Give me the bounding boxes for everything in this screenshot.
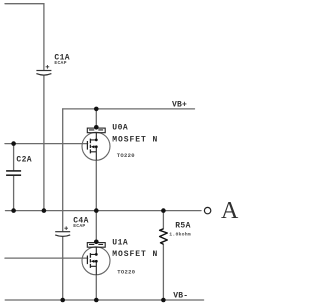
svg-text:VB+: VB+	[172, 100, 187, 109]
svg-text:TO220: TO220	[117, 269, 135, 276]
svg-text:TO220: TO220	[117, 152, 135, 159]
svg-text:R5A: R5A	[175, 221, 191, 230]
svg-text:MOSFET N: MOSFET N	[112, 250, 158, 259]
svg-text:ECAP: ECAP	[54, 60, 66, 66]
svg-text:MOSFET N: MOSFET N	[112, 136, 158, 145]
svg-text:1.0kohm: 1.0kohm	[169, 231, 191, 237]
svg-text:U0A: U0A	[112, 124, 128, 133]
svg-text:VB-: VB-	[173, 292, 188, 301]
svg-text:A: A	[221, 198, 239, 224]
svg-text:C2A: C2A	[16, 156, 32, 165]
svg-text:ECAP: ECAP	[73, 223, 85, 229]
svg-text:U1A: U1A	[112, 239, 128, 248]
